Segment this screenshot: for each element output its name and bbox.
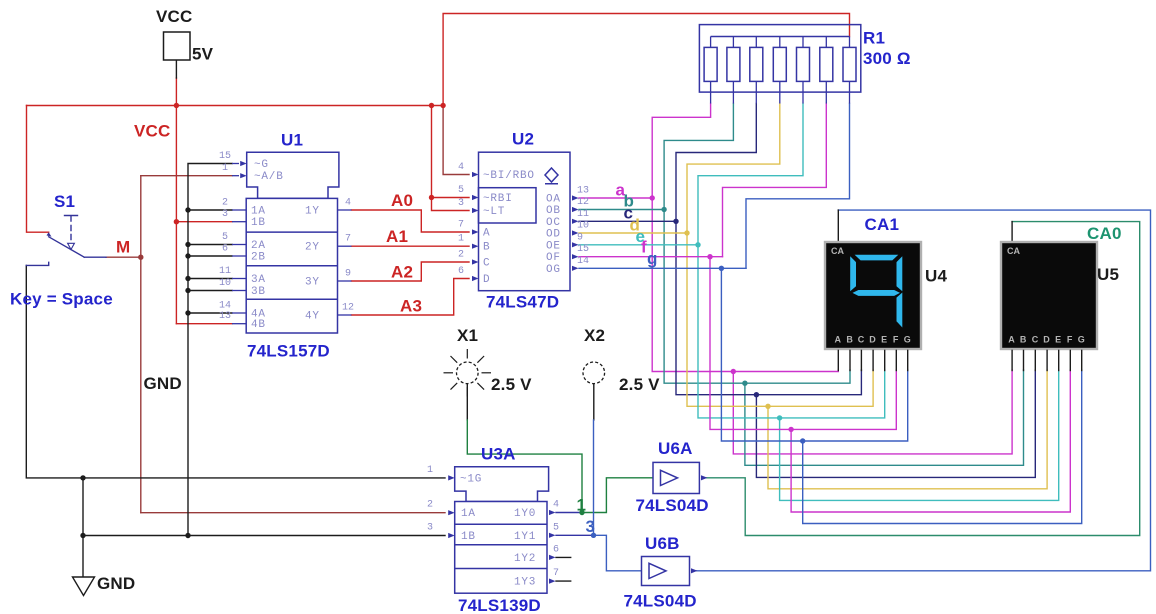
wire GND lower rail to U3A pin 3 (1B)	[83, 535, 445, 537]
resistor R1-4	[779, 37, 781, 104]
wire GND tap to U1 pin 14 (4A)	[188, 312, 232, 314]
svg-text:5: 5	[553, 522, 559, 533]
wire net A3 from U1 4Y to U2 D	[352, 279, 470, 316]
resistor R1-2	[732, 37, 734, 104]
svg-text:3Y: 3Y	[305, 277, 320, 289]
junction net e branch	[777, 415, 782, 420]
svg-text:C: C	[1032, 335, 1039, 345]
svg-text:7: 7	[553, 568, 559, 579]
svg-text:1: 1	[427, 465, 433, 476]
junction GND at ground symbol	[80, 533, 85, 538]
svg-text:300 Ω: 300 Ω	[863, 49, 911, 68]
svg-text:C: C	[483, 258, 490, 270]
lamp X1 (lit probe)	[444, 349, 492, 397]
junction VCC at symbol stub	[174, 103, 179, 108]
wire GND tap to U1 pin 5 (2A)	[188, 244, 232, 246]
svg-text:3: 3	[458, 198, 464, 209]
svg-text:74LS139D: 74LS139D	[458, 596, 541, 614]
wire net g U2 OG pin segment	[579, 267, 746, 269]
wire net M vertical	[140, 176, 142, 513]
U1 pin 7 stub (2Y)	[338, 245, 352, 247]
svg-text:CA: CA	[831, 246, 844, 256]
U4 lit segment c	[897, 293, 903, 328]
wire net a U2 OA pin segment	[579, 197, 652, 199]
junction net g branch	[800, 438, 805, 443]
svg-text:74LS47D: 74LS47D	[486, 293, 559, 312]
U5 pin D stub	[1046, 350, 1048, 370]
svg-text:B: B	[483, 242, 490, 254]
junction VCC at RBI/LT drop	[429, 103, 434, 108]
junction GND bus bottom	[185, 533, 190, 538]
wire net f branch to U5 segment F	[791, 370, 1070, 512]
svg-text:OG: OG	[546, 264, 561, 276]
svg-text:VCC: VCC	[156, 7, 193, 26]
junction net g at U2 OG	[719, 266, 724, 271]
wire net a branch to U5 segment A	[733, 370, 1012, 454]
junction VCC at U1 1B tap	[174, 219, 179, 224]
U5 pin A stub	[1011, 350, 1013, 370]
U2 pin 12 arrow (OB)	[572, 207, 579, 212]
U2 body	[479, 152, 571, 291]
svg-text:~BI/RBO: ~BI/RBO	[483, 170, 535, 182]
wire net e from R1-5 down to U4 segment E	[698, 104, 885, 418]
resistor R1-5	[802, 37, 804, 104]
svg-text:D: D	[1043, 335, 1050, 345]
svg-text:74LS04D: 74LS04D	[624, 592, 697, 611]
U3A control box	[455, 467, 549, 502]
wire net 3 branch to U6B input	[594, 535, 642, 571]
U1 body	[246, 198, 337, 333]
wire net b from R1-2 down to U4 segment B	[664, 104, 850, 384]
svg-text:1Y0: 1Y0	[514, 508, 536, 520]
resistor R1-1	[710, 37, 712, 104]
U1 pin 1 stub	[232, 175, 239, 177]
wire U4 CA pin stub	[837, 210, 839, 243]
wire net g from R1-7 down to U2 OG row	[746, 104, 850, 269]
wire net c U2 OC pin segment	[579, 220, 676, 222]
svg-text:6: 6	[222, 244, 228, 255]
svg-text:1Y3: 1Y3	[514, 577, 536, 589]
wire net b U2 OB pin segment	[579, 209, 664, 211]
U1 pin 11 stub	[232, 278, 246, 280]
junction GND bus at 4A	[185, 310, 190, 315]
wire VCC riser to R1 common bus	[443, 14, 849, 106]
U4 pin A stub	[837, 350, 839, 370]
U1 pin 2 stub	[232, 209, 246, 211]
svg-text:6: 6	[553, 544, 559, 555]
svg-text:5: 5	[222, 232, 228, 243]
svg-text:74LS157D: 74LS157D	[247, 342, 330, 361]
U1 pin 4 stub (1Y)	[338, 209, 352, 211]
junction GND bus at 2A	[185, 242, 190, 247]
svg-text:12: 12	[342, 303, 354, 314]
junction net c at U2 OC	[673, 219, 678, 224]
U5 pin B stub	[1023, 350, 1025, 370]
svg-text:4Y: 4Y	[305, 311, 320, 323]
U1 pin 14 stub	[232, 312, 246, 314]
svg-text:F: F	[1067, 335, 1073, 345]
svg-text:~A/B: ~A/B	[254, 171, 284, 183]
svg-text:3B: 3B	[251, 286, 266, 298]
U3A pin 1 arrow (~1G)	[448, 475, 455, 480]
inverter U6B 74LS04D	[642, 557, 698, 586]
svg-text:4: 4	[345, 198, 351, 209]
svg-text:G: G	[904, 335, 911, 345]
svg-text:~G: ~G	[254, 159, 269, 171]
resistor pack R1 300 ohm	[699, 25, 860, 104]
U3A pin 3 arrow (1B)	[448, 533, 455, 538]
wire net CA1 from U6B output to U4 CA	[695, 210, 1151, 571]
svg-text:A: A	[835, 335, 842, 345]
wire GND black stub of VCC symbol	[175, 60, 177, 78]
BCD decoder U2 74LS47D	[472, 152, 579, 291]
wire net g branch to U5 segment G	[803, 370, 1082, 524]
U2 pin 3 arrow	[472, 208, 479, 213]
svg-text:2: 2	[458, 250, 464, 261]
wire VCC branch to U2 ~LT pin 3	[432, 198, 470, 211]
U1 pin 12 stub (4Y)	[338, 314, 352, 316]
wire net M to U3A pin 2 (1A)	[141, 512, 445, 514]
U2 pin 7 arrow (A)	[472, 229, 479, 234]
U5 pin G stub	[1081, 350, 1083, 370]
wire GND tap to U1 pin 2 (1A)	[188, 209, 232, 211]
svg-text:2A: 2A	[251, 240, 266, 252]
svg-text:A3: A3	[400, 297, 422, 316]
svg-text:S1: S1	[54, 192, 75, 211]
svg-text:2: 2	[427, 500, 433, 511]
svg-text:15: 15	[577, 244, 589, 255]
wire net d from R1-4 down to U4 segment D	[687, 104, 873, 407]
wire VCC rail down-left to S1 upper throw	[27, 106, 49, 233]
svg-text:X1: X1	[457, 326, 478, 345]
svg-text:~LT: ~LT	[483, 206, 505, 218]
U2 pin 13 arrow (OA)	[572, 195, 579, 200]
svg-text:14: 14	[219, 301, 231, 312]
U4 pin D stub	[872, 350, 874, 370]
junction net 1	[579, 510, 584, 515]
svg-text:5V: 5V	[192, 45, 214, 64]
junction GND bus at 3B	[185, 288, 190, 293]
svg-text:6: 6	[458, 266, 464, 277]
svg-text:CA: CA	[1007, 246, 1020, 256]
junction GND bus at 1A	[185, 207, 190, 212]
U5 pin E stub	[1058, 350, 1060, 370]
svg-text:1B: 1B	[251, 217, 266, 229]
S1 lower throw contact and stub	[26, 262, 48, 265]
svg-text:A0: A0	[391, 191, 413, 210]
svg-text:GND: GND	[144, 374, 182, 393]
U2 open-collector diamond symbol	[545, 168, 558, 184]
S1 arm	[49, 237, 85, 257]
wire net M from S1 common to junction	[106, 256, 141, 258]
wire VCC to U1 pin 13 (4B)	[176, 323, 232, 325]
svg-text:2Y: 2Y	[305, 242, 320, 254]
svg-text:OD: OD	[546, 229, 561, 241]
probe X2 (unlit)	[583, 362, 605, 384]
U2 pin 11 arrow (OC)	[572, 219, 579, 224]
svg-text:CA1: CA1	[865, 215, 900, 234]
wire VCC vertical feeding U1 1B and 4B	[175, 106, 177, 324]
wire X2 pin stub	[593, 384, 595, 420]
wire U5 CA pin stub	[1011, 222, 1013, 243]
seven segment display U4	[824, 241, 922, 371]
wire net f from R1-6 down to U2 OF row	[723, 104, 827, 257]
VCC power symbol	[164, 32, 191, 60]
U2 pin 9 arrow (OE)	[572, 242, 579, 247]
junction net d at U2 OD	[684, 230, 689, 235]
svg-text:4: 4	[553, 500, 559, 511]
R1 outer box	[699, 25, 860, 93]
wire net 1 from U3A 1Y0 to junction	[556, 512, 582, 514]
svg-text:B: B	[1020, 335, 1027, 345]
U1 pin 15 stub	[232, 163, 239, 165]
U2 pin 5 arrow	[472, 195, 479, 200]
svg-text:E: E	[881, 335, 887, 345]
svg-text:A2: A2	[391, 263, 413, 282]
svg-text:1A: 1A	[461, 508, 476, 520]
svg-text:1: 1	[222, 163, 228, 174]
wire net M to U1 pin 1 ~A/B	[141, 175, 232, 177]
junction GND bus at 3A	[185, 276, 190, 281]
svg-text:U2: U2	[512, 130, 534, 149]
U4 pin C stub	[860, 350, 862, 370]
wire VCC drop to U2 ~BI/RBO pin 4 (dark red)	[443, 106, 469, 175]
svg-text:4: 4	[458, 162, 464, 173]
U1 pin 9 stub (3Y)	[338, 280, 352, 282]
svg-text:CA0: CA0	[1087, 224, 1122, 243]
svg-text:2B: 2B	[251, 252, 266, 264]
wire net e U2 OE pin segment	[579, 244, 698, 246]
wire net A2 from U1 3Y to U2 C	[352, 262, 470, 281]
U1 pin 3 stub	[232, 221, 246, 223]
wire net 1 branch to U6A input	[582, 478, 653, 513]
wire net 3 branch up to probe X2	[593, 420, 595, 535]
wire GND bus from U1 pin 15 down	[188, 164, 232, 536]
svg-text:7: 7	[458, 220, 464, 231]
junction net a branch	[731, 369, 736, 374]
svg-text:OF: OF	[546, 252, 561, 264]
svg-text:1Y2: 1Y2	[514, 553, 536, 565]
svg-text:2.5 V: 2.5 V	[491, 375, 532, 394]
svg-text:1Y1: 1Y1	[514, 531, 536, 543]
U4 lit segment a	[855, 255, 899, 261]
svg-text:1: 1	[577, 496, 587, 515]
U3A pin 2 arrow (1A)	[448, 510, 455, 515]
svg-text:D: D	[869, 335, 876, 345]
wire VCC to U1 pin 3 (1B)	[176, 221, 232, 223]
svg-text:2.5 V: 2.5 V	[619, 375, 660, 394]
svg-text:3: 3	[222, 209, 228, 220]
svg-text:g: g	[647, 249, 658, 268]
wire net c branch to U5 segment C	[756, 370, 1035, 477]
svg-text:7: 7	[345, 234, 351, 245]
resistor R1-7	[849, 37, 851, 104]
svg-text:U6B: U6B	[645, 534, 680, 553]
junction GND at S1 branch	[80, 475, 85, 480]
ground symbol GND	[73, 577, 95, 596]
U3A pin 6 arrow (1Y2)	[549, 555, 556, 560]
svg-text:1A: 1A	[251, 206, 266, 218]
svg-text:14: 14	[577, 256, 589, 267]
wire GND stub to ground symbol	[82, 536, 84, 578]
U1 pin 6 stub	[232, 255, 246, 257]
U4 lit segment f	[850, 256, 856, 291]
svg-text:A1: A1	[386, 227, 408, 246]
wire GND from S1 lower throw to U3A pin 1 ~1G	[26, 265, 445, 478]
U3A pin 7 arrow (1Y3)	[549, 579, 556, 584]
U4 pin F stub	[895, 350, 897, 370]
multiplexer U1 74LS157D	[232, 152, 352, 333]
wire net f U2 OF pin segment	[579, 256, 723, 258]
decoder U3A 74LS139D	[448, 467, 555, 593]
svg-text:U1: U1	[281, 131, 303, 150]
svg-text:U3A: U3A	[481, 445, 516, 464]
wire net A0 from U1 1Y to U2 A	[352, 210, 470, 232]
svg-text:U6A: U6A	[658, 439, 693, 458]
svg-text:~1G: ~1G	[460, 473, 482, 485]
U2 pin 6 arrow (D)	[472, 276, 479, 281]
resistor R1-3	[755, 37, 757, 104]
wire net d branch to U5 segment D	[768, 370, 1047, 489]
svg-text:C: C	[858, 335, 865, 345]
junction net a at U2 OA	[650, 195, 655, 200]
svg-text:11: 11	[577, 209, 589, 220]
U4 pin E stub	[884, 350, 886, 370]
svg-text:3A: 3A	[251, 274, 266, 286]
U4 lit segment b	[897, 256, 903, 291]
wire GND tap to U1 pin 10 (3B)	[188, 290, 232, 292]
U5 pin C stub	[1034, 350, 1036, 370]
svg-text:R1: R1	[863, 29, 885, 48]
svg-text:13: 13	[577, 186, 589, 197]
svg-text:~RBI: ~RBI	[483, 193, 513, 205]
wire net e branch to U5 segment E	[780, 370, 1059, 500]
U5 pin F stub	[1069, 350, 1071, 370]
junction net c branch	[754, 392, 759, 397]
R1 common bus	[711, 36, 850, 38]
svg-text:OE: OE	[546, 240, 561, 252]
svg-text:A: A	[1008, 335, 1015, 345]
svg-text:G: G	[1078, 335, 1085, 345]
svg-text:11: 11	[219, 266, 231, 277]
junction GND bus at 2B	[185, 253, 190, 258]
junction node M	[138, 255, 143, 260]
junction VCC at U2 pin 5 branch	[429, 195, 434, 200]
svg-text:Key = Space: Key = Space	[10, 290, 113, 309]
svg-text:3: 3	[586, 517, 596, 536]
U2 pin 1 arrow (B)	[472, 244, 479, 249]
svg-text:10: 10	[219, 278, 231, 289]
wire net g down to U4 segment G	[721, 268, 907, 441]
svg-text:F: F	[893, 335, 899, 345]
S1 upper throw contact	[47, 232, 52, 237]
junction net 3	[591, 533, 596, 538]
U2 pin 14 arrow (OG)	[572, 266, 579, 271]
svg-text:2: 2	[222, 198, 228, 209]
U2 pin 10 arrow (OD)	[572, 230, 579, 235]
svg-text:OC: OC	[546, 217, 561, 229]
seven segment display U5	[1000, 241, 1098, 371]
U1 pin 10 stub	[232, 290, 246, 292]
junction net d branch	[765, 404, 770, 409]
wire net a from R1-1 down to U4 segment A	[652, 104, 838, 372]
svg-text:OB: OB	[546, 205, 561, 217]
svg-text:E: E	[1055, 335, 1061, 345]
wire X1 pin stub	[466, 384, 468, 420]
wire net b branch to U5 segment B	[745, 370, 1024, 465]
svg-text:74LS04D: 74LS04D	[636, 496, 709, 515]
wire VCC drop to U2 ~RBI pin 5	[432, 106, 470, 198]
U3A pin 4 arrow (1Y0)	[549, 510, 556, 515]
svg-text:B: B	[846, 335, 853, 345]
svg-text:13: 13	[219, 311, 231, 322]
wire net A1 from U1 2Y to U2 B	[352, 245, 470, 247]
wire net f down to U4 segment F	[710, 257, 896, 430]
U1 control box	[247, 152, 339, 198]
svg-text:9: 9	[577, 232, 583, 243]
switch S1	[26, 216, 106, 266]
svg-text:D: D	[483, 274, 490, 286]
svg-text:VCC: VCC	[134, 122, 171, 141]
svg-text:X2: X2	[584, 326, 605, 345]
svg-text:10: 10	[577, 221, 589, 232]
svg-text:12: 12	[577, 197, 589, 208]
svg-text:1B: 1B	[461, 531, 476, 543]
S1 key actuator symbol	[65, 216, 78, 240]
U2 pin 2 arrow (C)	[472, 259, 479, 264]
wire U3A 1Y3 open stub	[556, 580, 571, 582]
U3A pin 5 arrow (1Y1)	[549, 533, 556, 538]
wire GND tap to U1 pin 6 (2B)	[188, 255, 232, 257]
junction net e at U2 OE	[695, 242, 700, 247]
U3A body	[455, 502, 547, 594]
U4 pin B stub	[849, 350, 851, 370]
wire VCC rail (red) from S1 corner to pin-4 tap	[27, 105, 444, 107]
wire GND branch down to lower rail	[82, 478, 84, 536]
svg-text:9: 9	[345, 269, 351, 280]
svg-text:GND: GND	[97, 574, 135, 593]
junction net f branch	[788, 427, 793, 432]
resistor R1-6	[825, 37, 827, 104]
wire net CA0 from U6A output to U5 CA	[705, 222, 1140, 536]
svg-text:U4: U4	[925, 267, 947, 286]
svg-text:15: 15	[219, 151, 231, 162]
U1 pin 13 stub	[232, 323, 246, 325]
inverter U6A 74LS04D	[653, 462, 708, 493]
junction net f at U2 OF	[707, 254, 712, 259]
wire net 1 branch up to lamp X1	[467, 420, 582, 513]
S1 common stub	[84, 256, 106, 258]
U1 pin 5 stub	[232, 244, 246, 246]
svg-text:1Y: 1Y	[305, 206, 320, 218]
wire VCC symbol stub to rail	[175, 78, 177, 106]
junction VCC at R1 riser	[440, 103, 445, 108]
U2 pin 15 arrow (OF)	[572, 254, 579, 259]
svg-text:U5: U5	[1097, 265, 1119, 284]
svg-text:4B: 4B	[251, 319, 266, 331]
U4 pin G stub	[907, 350, 909, 370]
svg-text:OA: OA	[546, 194, 561, 206]
svg-text:3: 3	[427, 523, 433, 534]
U4 lit segment g	[853, 290, 901, 296]
U2 pin 4 arrow	[472, 172, 479, 177]
svg-text:M: M	[116, 237, 130, 256]
wire net d U2 OD pin segment	[579, 232, 687, 234]
svg-text:5: 5	[458, 185, 464, 196]
svg-text:1: 1	[458, 234, 464, 245]
svg-text:A: A	[483, 228, 490, 240]
junction net b branch	[742, 381, 747, 386]
